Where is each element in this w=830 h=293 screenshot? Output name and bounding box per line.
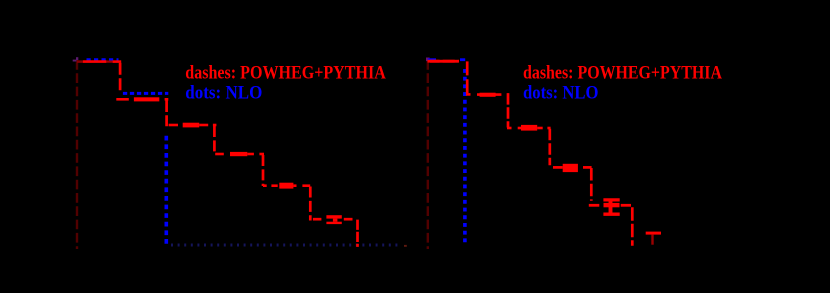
left panel: dark red dashed y-axis edge of histogram [76,60,78,249]
right panel: blue NLO bin1 dashes [428,58,436,61]
left panel: red vertical step x=213.8 [213,126,216,154]
right panel: dark red dashed y-axis edge of histogram [427,60,429,249]
right panel: red histogram bin5 horizontal [589,204,600,207]
left panel: faint navy NLO zero-level dots on axis [171,244,402,247]
right panel: red vertical step x=505.5 [507,93,510,127]
right panel: red marker bin2 [480,93,496,97]
right panel: red vertical step x=549.5 [548,129,551,165]
right panel: red vertical step x=466.2 [466,61,469,93]
left panel: red marker bin2 [134,97,159,101]
right panel: red marker bin3 [521,125,537,131]
right panel: red vertical step x=590.5 [590,168,593,201]
left panel: red vertical drop to zero x=357.5 [356,220,359,247]
left panel: red marker bin3 [183,123,200,128]
right panel: red marker bin4 [563,164,578,172]
left panel: red histogram bin3 horizontal [169,124,178,127]
svg-text:dots: NLO: dots: NLO [185,82,262,103]
left panel: red marker bin4 [230,152,247,156]
left panel: blue NLO bin2 dots [123,92,168,95]
right panel: red T marker beyond last bin [646,232,661,235]
left panel: red histogram bin1 horizontal [77,60,83,63]
right panel: red vertical drop to zero x=631.8 [631,207,634,246]
right panel: red histogram bin1 horizontal [428,60,460,63]
right panel: red histogram bin2 horizontal [466,93,471,96]
svg-text:dashes: POWHEG+PYTHIA: dashes: POWHEG+PYTHIA [523,62,722,83]
right panel: purple overlap tip at axis top [426,58,430,62]
left panel: red vertical step x=165.8 [165,101,168,127]
left panel: red histogram bin4 horizontal [215,153,224,156]
left panel: blue NLO vertical drop at x=166 [165,136,169,245]
svg-text:dots: NLO: dots: NLO [523,82,599,103]
left panel: red marker bin5 [279,183,293,189]
left panel: red vertical step x=119.5 [119,63,122,90]
left panel: faint red zero-level dash on axis [404,245,407,247]
right panel: red histogram bin3 horizontal [507,127,512,130]
left panel: red histogram bin6 horizontal [313,218,322,221]
right panel: red marker bin1 [430,60,458,63]
right panel: red histogram bin4 horizontal [553,166,563,169]
left panel: red marker bin6 with error bar caps [326,215,341,218]
left panel: red histogram bin5 horizontal [263,184,267,187]
left panel: purple overlap tip at axis top [73,60,77,62]
left panel: blue NLO bin1 dashes [87,58,119,61]
svg-text:dashes: POWHEG+PYTHIA: dashes: POWHEG+PYTHIA [185,62,386,83]
left panel: red vertical step x=261.8 [262,155,265,186]
right panel: red marker bin5 with error bars [604,203,620,207]
left panel: red vertical step x=311.5 [309,187,312,221]
right panel: blue NLO vertical drop at x=463.8 [463,69,467,245]
left panel: red histogram bin2 horizontal [116,98,129,101]
